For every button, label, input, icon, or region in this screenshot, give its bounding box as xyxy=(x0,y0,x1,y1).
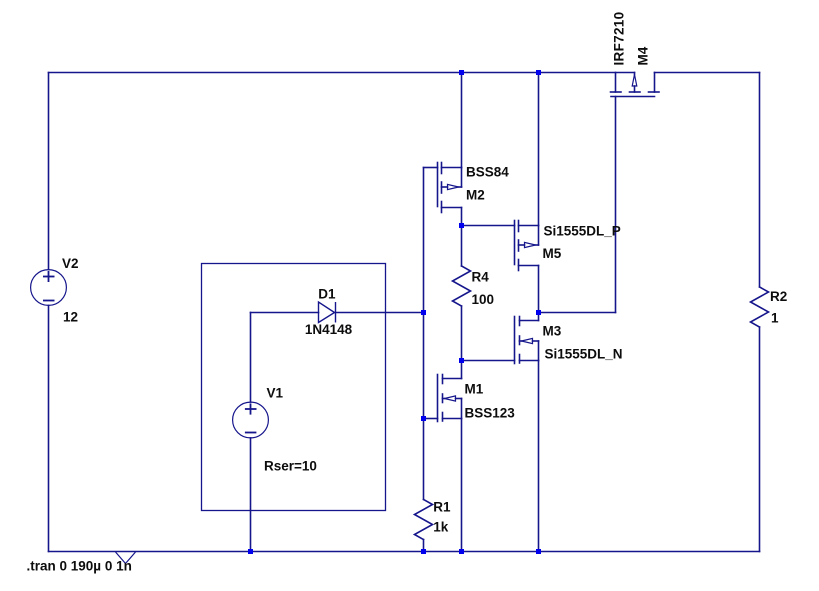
svg-text:1k: 1k xyxy=(433,520,449,535)
svg-text:M3: M3 xyxy=(543,324,562,339)
svg-text:R1: R1 xyxy=(433,499,451,514)
svg-text:R4: R4 xyxy=(472,270,490,285)
svg-text:V2: V2 xyxy=(62,256,79,271)
svg-text:M4: M4 xyxy=(636,46,651,65)
svg-text:1: 1 xyxy=(771,311,779,326)
svg-text:BSS123: BSS123 xyxy=(465,406,516,421)
svg-text:M5: M5 xyxy=(543,246,562,261)
svg-text:100: 100 xyxy=(472,292,495,307)
svg-text:M2: M2 xyxy=(466,188,485,203)
svg-text:BSS84: BSS84 xyxy=(466,165,509,180)
svg-text:12: 12 xyxy=(63,310,78,325)
svg-text:R2: R2 xyxy=(770,289,787,304)
svg-text:V1: V1 xyxy=(267,386,284,401)
svg-text:Si1555DL_P: Si1555DL_P xyxy=(544,223,621,238)
svg-text:1N4148: 1N4148 xyxy=(305,322,353,337)
svg-text:.tran 0 190µ 0 1n: .tran 0 190µ 0 1n xyxy=(27,559,132,574)
svg-text:D1: D1 xyxy=(318,287,336,302)
svg-text:Si1555DL_N: Si1555DL_N xyxy=(545,347,623,362)
svg-text:M1: M1 xyxy=(465,382,484,397)
svg-text:Rser=10: Rser=10 xyxy=(264,459,317,474)
svg-text:IRF7210: IRF7210 xyxy=(612,12,627,66)
